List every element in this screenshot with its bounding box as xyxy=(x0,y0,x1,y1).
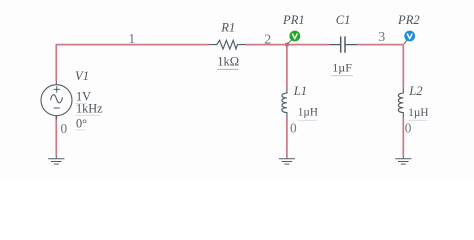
svg-text:1µH: 1µH xyxy=(298,107,318,119)
resistor R1 xyxy=(209,40,246,49)
svg-text:1kΩ: 1kΩ xyxy=(217,54,239,68)
V1 value underline 0deg xyxy=(76,129,85,131)
svg-text:C1: C1 xyxy=(336,13,351,27)
inductor L1 xyxy=(282,89,287,118)
wire: L1 bottom to ground xyxy=(286,118,288,157)
C1 value underline xyxy=(331,75,353,77)
wire net3: C1 right to L2 top corner xyxy=(357,45,403,89)
L2 value underline xyxy=(408,119,427,121)
svg-text:3: 3 xyxy=(378,30,385,45)
svg-text:0°: 0° xyxy=(76,116,87,130)
V1 value underline 1kHz xyxy=(76,114,101,116)
wire net1: V1 top to R1 left xyxy=(56,45,209,81)
probe PR1 letter v xyxy=(293,34,298,39)
L1 value underline xyxy=(298,119,317,121)
probe PR2 stub xyxy=(404,40,407,44)
svg-text:L1: L1 xyxy=(293,84,307,98)
inductor L2 xyxy=(398,89,403,118)
wire net2: junction to C1 left xyxy=(287,44,329,46)
R1 value underline xyxy=(217,68,238,70)
wire net2 vertical: junction to L1 top xyxy=(286,45,288,89)
voltage source V1 xyxy=(41,81,72,120)
svg-text:1: 1 xyxy=(128,32,135,47)
svg-text:V1: V1 xyxy=(75,69,89,83)
V1 value underline 1V xyxy=(76,102,87,104)
svg-text:R1: R1 xyxy=(220,21,235,35)
probe PR2 letter v xyxy=(407,34,412,39)
ground GND2 (under L1) xyxy=(279,156,295,164)
svg-text:PR2: PR2 xyxy=(397,13,420,27)
ground GND1 (under V1) xyxy=(48,156,64,164)
svg-text:PR1: PR1 xyxy=(282,13,305,27)
ground GND3 (under L2) xyxy=(395,156,411,164)
svg-text:0: 0 xyxy=(61,121,68,136)
junction node 2 dot xyxy=(285,43,289,47)
probe PR2 xyxy=(404,31,415,42)
probe PR1 stub xyxy=(288,40,292,44)
probe PR1 xyxy=(289,31,300,42)
svg-text:1µH: 1µH xyxy=(408,107,428,119)
wire: L2 bottom to ground xyxy=(402,118,404,157)
svg-text:0: 0 xyxy=(405,121,412,136)
wire net2: R1 right to junction xyxy=(246,44,287,46)
wire: V1 bottom to ground xyxy=(55,116,57,157)
svg-text:2: 2 xyxy=(264,33,271,48)
capacitor C1 xyxy=(329,36,357,52)
svg-text:1µF: 1µF xyxy=(332,61,352,75)
svg-text:L2: L2 xyxy=(408,84,423,98)
svg-text:0: 0 xyxy=(290,121,297,136)
